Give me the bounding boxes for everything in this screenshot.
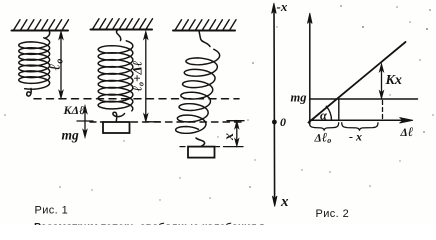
svg-text:- x: - x	[349, 130, 362, 144]
dashed level line 1 (bottom of unloaded spring)	[34, 98, 239, 100]
ceiling 3 hatching	[175, 20, 236, 31]
dimension line l0+dl with arrows	[144, 31, 160, 122]
mass on spring 3	[188, 147, 215, 158]
spring 3 suspension wire	[199, 31, 210, 47]
ceiling 2 line	[91, 29, 153, 31]
spring 2 (loaded, stretched to l0+dl)	[98, 41, 133, 122]
svg-text:mg: mg	[62, 128, 80, 143]
svg-text:Рассмотрим теперь свободные ко: Рассмотрим теперь свободные колебания г	[34, 221, 265, 225]
brace under dl0	[309, 123, 338, 130]
dashed vertical below Kx	[382, 101, 384, 120]
vertical at mg crossing	[338, 99, 340, 120]
svg-text:x: x	[280, 194, 289, 210]
svg-text:KΔℓ: KΔℓ	[63, 103, 85, 117]
dashed level line 2 (equilibrium level)	[90, 121, 103, 123]
long x-coordinate axis (vertical, two-headed)	[272, 3, 277, 207]
force arrow mg (down)	[83, 121, 87, 138]
svg-text:Δℓ: Δℓ	[400, 124, 414, 139]
ceiling 2 hatching	[93, 19, 153, 30]
ceiling 1 hatching	[14, 20, 69, 31]
mass on spring 2	[103, 122, 130, 133]
force arrow K*dl (up)	[83, 106, 87, 122]
force-extension line (diagonal)	[309, 42, 406, 123]
angle arc alpha	[326, 106, 331, 120]
tick at equilibrium cross	[77, 120, 93, 122]
svg-text:Рис. 2: Рис. 2	[316, 208, 350, 220]
dashes at mass-3 top level	[180, 146, 228, 148]
brace under x	[342, 123, 378, 130]
svg-text:Δℓo: Δℓo	[314, 130, 332, 146]
spring 3 (displaced by extra x)	[176, 49, 220, 146]
svg-text:Kx: Kx	[385, 73, 402, 88]
svg-text:α: α	[320, 109, 328, 123]
dimension line l0 with arrows	[59, 31, 63, 98]
ceiling 3 line	[173, 30, 235, 32]
svg-text:x: x	[222, 133, 237, 141]
svg-text:mg: mg	[291, 91, 307, 105]
spring 1 (unloaded, natural length l0)	[19, 32, 50, 97]
svg-text:Рис. 1: Рис. 1	[35, 205, 69, 217]
svg-text:-x: -x	[277, 0, 288, 14]
graph y-axis	[308, 13, 313, 124]
graph x-axis with arrow	[310, 118, 414, 124]
svg-text:0: 0	[280, 115, 286, 129]
svg-text:ℓo+Δℓ: ℓo+Δℓ	[130, 61, 146, 92]
spring 2 suspension wire	[116, 30, 120, 41]
mg level line on graph	[310, 98, 418, 100]
Kx arrow (double headed)	[379, 64, 383, 99]
ceiling 1 line	[12, 30, 69, 32]
origin dot on axis	[272, 120, 277, 125]
dimension x (displacement) with ticks and arrows	[227, 121, 244, 147]
